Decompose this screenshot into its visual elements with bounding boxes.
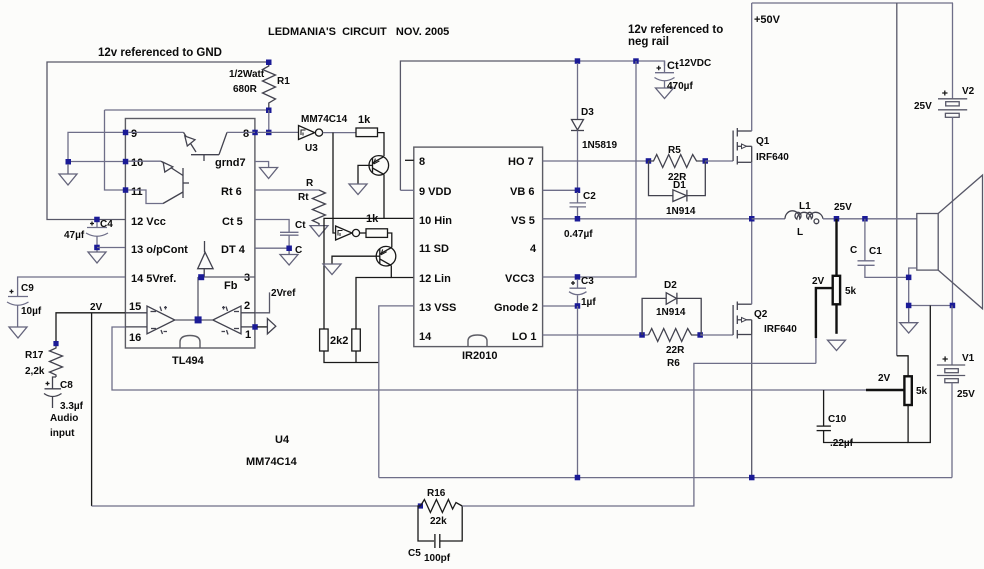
- wire Lin to 2k2 right riser: [356, 278, 391, 330]
- svg-text:16: 16: [129, 332, 141, 344]
- svg-text:13 o/pCont: 13 o/pCont: [131, 244, 188, 256]
- capacitor C5 loop: [418, 506, 462, 548]
- svg-text:0.47µf: 0.47µf: [564, 229, 593, 240]
- svg-text:MM74C14: MM74C14: [246, 456, 298, 468]
- svg-text:1N5819: 1N5819: [582, 140, 617, 151]
- node comparator mid junction: [195, 316, 202, 323]
- svg-text:11 SD: 11 SD: [419, 243, 449, 255]
- wire 2k2 bottoms join: [324, 351, 379, 363]
- svg-text:2V: 2V: [812, 276, 825, 287]
- wire R5 to Q1 gate: [705, 160, 733, 162]
- svg-text:V1: V1: [962, 353, 975, 364]
- svg-text:12 Lin: 12 Lin: [419, 273, 451, 285]
- resistor Rt: [312, 190, 325, 226]
- wire 12v rail to Ct cap: [578, 61, 665, 66]
- svg-text:IRF640: IRF640: [764, 324, 797, 335]
- buffer triangle above Fb: [198, 241, 213, 277]
- svg-text:10: 10: [131, 157, 143, 169]
- wire pin14 to C9: [18, 277, 125, 296]
- svg-text:11: 11: [131, 186, 143, 198]
- wire drop to inverter 2 input: [333, 133, 336, 233]
- svg-text:D2: D2: [664, 280, 677, 291]
- svg-text:neg rail: neg rail: [628, 36, 669, 48]
- potentiometer 5k (lower): [904, 376, 911, 405]
- diode D2 loop: [642, 298, 666, 335]
- node VS junction: [575, 216, 581, 222]
- svg-text:680R: 680R: [233, 84, 258, 95]
- svg-text:2,2k: 2,2k: [25, 366, 45, 377]
- svg-text:LO 1: LO 1: [512, 331, 536, 343]
- svg-text:R17: R17: [25, 350, 44, 361]
- svg-text:1/2Watt: 1/2Watt: [229, 69, 265, 80]
- svg-text:2V: 2V: [90, 302, 103, 313]
- svg-text:2k2: 2k2: [330, 335, 348, 347]
- svg-text:R1: R1: [277, 76, 290, 87]
- ground below C9: [9, 327, 27, 338]
- arrow output pin1: [267, 319, 275, 334]
- svg-text:TL494: TL494: [172, 355, 205, 367]
- svg-text:1k: 1k: [366, 213, 379, 225]
- svg-text:2Vref: 2Vref: [271, 288, 296, 299]
- capacitor C10: [817, 390, 909, 443]
- ground below C4: [88, 250, 106, 263]
- svg-text:2V: 2V: [878, 373, 891, 384]
- node pin1 junction: [252, 324, 257, 330]
- svg-text:22k: 22k: [430, 516, 447, 527]
- node mid rail junctions: [906, 303, 912, 309]
- svg-text:Rt 6: Rt 6: [221, 186, 242, 198]
- svg-text:8: 8: [419, 156, 425, 168]
- ground below mid rail: [900, 308, 918, 333]
- svg-text:.22µf: .22µf: [830, 438, 854, 449]
- diode D1 loop: [649, 161, 673, 196]
- node speaker return junction: [906, 275, 912, 281]
- node C junction: [286, 246, 292, 252]
- svg-text:U3: U3: [305, 143, 318, 154]
- ground Q3 base: [349, 184, 367, 195]
- diode D3: [577, 63, 579, 120]
- wire V1 bottom lead to neg rail: [951, 383, 953, 478]
- capacitor Ct 470uf: [655, 61, 675, 88]
- svg-text:C5: C5: [408, 548, 421, 559]
- ground below C: [280, 251, 298, 265]
- svg-text:DT 4: DT 4: [221, 244, 246, 256]
- transistor TL494 internal lower: [128, 160, 161, 162]
- svg-text:12VDC: 12VDC: [679, 58, 711, 69]
- wire pin13 left: [97, 247, 125, 249]
- ground below Ct: [656, 88, 674, 99]
- wire between comparator apexes: [175, 319, 213, 321]
- svg-text:C9: C9: [21, 283, 34, 294]
- svg-text:Ct: Ct: [295, 220, 306, 231]
- svg-text:VCC3: VCC3: [505, 273, 534, 285]
- speaker driver rectangle: [917, 214, 938, 271]
- svg-text:3: 3: [244, 272, 250, 284]
- wire V2 top lead: [952, 3, 954, 98]
- node R16 left junction: [418, 503, 423, 508]
- capacitor C8: [44, 377, 62, 408]
- svg-text:1: 1: [245, 329, 251, 341]
- wire V1 top lead: [951, 306, 953, 365]
- svg-text:C4: C4: [100, 219, 113, 230]
- node pin9-10 left junction: [66, 159, 72, 165]
- wire pin8 to U3 input: [257, 131, 299, 133]
- wire output to L1: [752, 218, 785, 220]
- svg-text:14 5Vref.: 14 5Vref.: [131, 273, 176, 285]
- svg-text:8: 8: [243, 128, 249, 140]
- svg-text:2: 2: [244, 300, 250, 312]
- svg-text:LEDMANIA'S CIRCUIT NOV. 200: LEDMANIA'S CIRCUIT NOV. 2005: [268, 26, 449, 38]
- capacitor C1: [858, 219, 909, 278]
- wire 2V rail (pin16 net): [112, 327, 866, 390]
- node R5 left junction: [646, 158, 652, 164]
- svg-text:MM74C14: MM74C14: [301, 114, 348, 125]
- capacitor C2: [570, 192, 587, 219]
- svg-text:14: 14: [419, 331, 432, 343]
- svg-text:12 Vcc: 12 Vcc: [131, 216, 166, 228]
- node R5 right junction: [703, 158, 709, 164]
- wire vertical to pin 11: [105, 110, 126, 190]
- wiper pot1: [816, 288, 833, 338]
- svg-text:25V: 25V: [914, 101, 932, 112]
- svg-text:Ct 5: Ct 5: [222, 216, 243, 228]
- node R6 right junction: [697, 332, 703, 338]
- wire R1 bottom horizontal y=110: [105, 109, 269, 111]
- node Fb junction: [198, 274, 204, 280]
- wire Q2 drain up to output node: [751, 219, 753, 304]
- inductor L1: [785, 211, 823, 224]
- svg-text:9: 9: [131, 128, 137, 140]
- wire Hin branch to 2k2 left: [324, 218, 384, 329]
- wire 1k to Q3 collector: [378, 133, 385, 156]
- svg-text:1N914: 1N914: [656, 307, 686, 318]
- svg-text:IR2010: IR2010: [462, 350, 497, 362]
- wire Q3 base to ground: [358, 165, 369, 184]
- svg-text:13 VSS: 13 VSS: [419, 302, 456, 314]
- speaker cone: [938, 175, 982, 309]
- node Gnode junction: [575, 303, 581, 309]
- wire pin8 stub: [405, 159, 414, 161]
- inverter U3b: [336, 226, 360, 240]
- svg-text:100pf: 100pf: [424, 553, 451, 564]
- transistor Q1 IRF640: [733, 128, 752, 165]
- svg-text:C10: C10: [828, 414, 847, 425]
- wire Gnode2 to C3 bottom: [543, 305, 578, 307]
- wire VB6 to C2: [543, 189, 578, 191]
- wire LO1 to R6: [543, 334, 649, 336]
- svg-text:+50V: +50V: [754, 14, 781, 26]
- svg-text:D1: D1: [673, 180, 686, 191]
- wiper pot2: [866, 389, 904, 391]
- resistor 2k2 right: [352, 329, 361, 351]
- wire Fb junction down to comparator mid: [197, 277, 199, 320]
- wire pin1 to arrow: [257, 326, 267, 328]
- resistor R17: [50, 346, 63, 377]
- svg-text:D3: D3: [581, 107, 594, 118]
- node junction squares at TL494 left pins: [123, 130, 129, 136]
- svg-text:22R: 22R: [666, 345, 685, 356]
- svg-text:input: input: [50, 428, 75, 439]
- wire 12v top rail: [47, 62, 269, 220]
- node junction square at TL494 pin 8: [252, 130, 257, 136]
- potentiometer 5k (upper): [835, 219, 837, 276]
- svg-text:U4: U4: [275, 434, 290, 446]
- wire R1 bottom to pin8 row: [268, 110, 270, 132]
- transistor Q3 (to Hin): [369, 156, 389, 176]
- ground Q4 base: [323, 264, 341, 275]
- svg-text:R16: R16: [427, 488, 446, 499]
- svg-text:Gnode 2: Gnode 2: [494, 302, 538, 314]
- svg-text:Ct: Ct: [667, 60, 679, 72]
- svg-text:VB 6: VB 6: [510, 186, 534, 198]
- svg-text:1k: 1k: [358, 114, 371, 126]
- node output junction Q1/Q2: [749, 216, 755, 222]
- wire Rt6: [255, 189, 319, 191]
- ground below Rt: [310, 226, 328, 237]
- svg-text:3.3µf: 3.3µf: [60, 401, 84, 412]
- capacitor Ct: [280, 232, 299, 248]
- svg-text:47µf: 47µf: [64, 230, 85, 241]
- transistor Q2 IRF640: [733, 302, 752, 339]
- node rail junction at D3: [575, 58, 581, 64]
- wire L1 to speaker: [823, 218, 917, 220]
- ground below pot1: [828, 340, 846, 350]
- svg-text:Rt: Rt: [298, 192, 309, 203]
- ground grnd7: [260, 168, 278, 179]
- svg-text:1N914: 1N914: [666, 206, 696, 217]
- node C1 top junction: [862, 216, 868, 222]
- svg-text:10µf: 10µf: [21, 306, 42, 317]
- wire riser to pot1 wiper: [815, 338, 817, 363]
- wire Q1 source to output node: [751, 162, 753, 219]
- svg-text:IRF640: IRF640: [756, 152, 789, 163]
- wire pin8 internal: [227, 131, 255, 133]
- resistor R16: [420, 500, 462, 513]
- svg-text:C8: C8: [60, 380, 73, 391]
- node VB junction: [575, 188, 581, 194]
- svg-text:9 VDD: 9 VDD: [419, 186, 451, 198]
- svg-text:5k: 5k: [845, 286, 857, 297]
- resistor 2k2 left: [320, 329, 329, 351]
- svg-text:12v referenced to GND: 12v referenced to GND: [98, 47, 222, 59]
- wire +50V to pot2 riser: [896, 3, 898, 356]
- svg-text:10 Hin: 10 Hin: [419, 215, 452, 227]
- node neg rail junction at Q2 source: [749, 475, 755, 481]
- svg-text:12v referenced to: 12v referenced to: [628, 24, 723, 36]
- svg-text:HO 7: HO 7: [508, 156, 534, 168]
- svg-text:L: L: [797, 227, 803, 238]
- svg-text:R6: R6: [667, 358, 680, 369]
- svg-text:1µf: 1µf: [581, 297, 596, 308]
- wire Q3 emitter to Hin: [384, 175, 414, 219]
- IC U1 IR2010 box: [414, 147, 543, 347]
- svg-text:Q2: Q2: [754, 309, 768, 320]
- node rail junction at VCC riser: [633, 58, 639, 64]
- wire Q4 base to ground: [332, 256, 376, 264]
- wire pin2 2Vref: [255, 292, 270, 312]
- svg-text:Audio: Audio: [50, 413, 78, 424]
- svg-text:grnd7: grnd7: [215, 157, 246, 169]
- svg-text:Q1: Q1: [756, 136, 770, 147]
- wire pot2 top to +50 riser: [897, 356, 908, 377]
- capacitor C9: [7, 297, 29, 328]
- svg-text:C3: C3: [581, 276, 594, 287]
- wire mid rail: [909, 305, 953, 307]
- svg-text:25V: 25V: [834, 202, 852, 213]
- transistor TL494 internal top: [128, 131, 184, 133]
- wire HO7 to R5: [543, 160, 649, 162]
- wire pin15 2V line: [56, 313, 125, 343]
- svg-text:R5: R5: [668, 145, 681, 156]
- wire V2 bottom lead to mid rail: [952, 117, 954, 305]
- svg-text:25V: 25V: [957, 389, 975, 400]
- wire 2V drop to bottom rail: [91, 313, 93, 506]
- wire VSS left and down: [379, 306, 414, 478]
- wire 1k2 to Q4 collector: [388, 233, 392, 248]
- wire +50V rail: [752, 2, 953, 4]
- notch arc TL494: [180, 336, 200, 349]
- wire Q4 emitter to Lin: [391, 266, 414, 278]
- svg-text:C: C: [850, 245, 857, 256]
- wire Fb row to pin3: [198, 276, 255, 278]
- notch arc IR2010: [468, 335, 487, 347]
- svg-text:L1: L1: [799, 201, 811, 212]
- svg-text:V2: V2: [962, 86, 975, 97]
- wire pin10 left: [68, 161, 125, 163]
- wire C3 bottom down to neg rail: [577, 306, 579, 478]
- capacitor C4: [86, 220, 108, 248]
- wire U3 output to 1k: [323, 132, 356, 134]
- svg-text:C1: C1: [869, 246, 882, 257]
- wire bottom 2V rail right: [462, 363, 816, 506]
- wire Q2 source down to neg rail: [751, 335, 753, 478]
- svg-text:4: 4: [530, 243, 537, 255]
- wire pot2 bottom loop: [908, 306, 930, 443]
- svg-text:Fb: Fb: [224, 280, 238, 292]
- svg-text:C2: C2: [583, 191, 596, 202]
- transistor Q4 (to Lin): [376, 246, 396, 266]
- ground below pin10 junction: [59, 164, 77, 185]
- wire U3b output to 1k2: [360, 232, 366, 234]
- wire neg rail (VSS to V1-): [379, 477, 952, 479]
- resistor 1k (top, box style): [356, 128, 378, 137]
- comparator right triangle (pins 2,1): [213, 306, 255, 335]
- node neg rail junction at C3 column: [575, 475, 581, 481]
- svg-text:R: R: [306, 178, 314, 189]
- inverter U3: [299, 126, 323, 140]
- wire VS5 to output node: [543, 218, 752, 220]
- IC U2 TL494 box: [125, 119, 255, 349]
- wire pin9 left: [68, 132, 125, 161]
- wire Ct5: [255, 220, 289, 233]
- svg-text:15: 15: [129, 301, 141, 313]
- wire VCC3 riser: [543, 61, 636, 277]
- svg-text:470µf: 470µf: [667, 81, 693, 92]
- resistor R6: [649, 329, 701, 342]
- comparator left triangle (pins 15,16): [125, 306, 175, 334]
- wire VDD rail from top: [400, 189, 413, 191]
- node pot1 top junction: [834, 216, 840, 222]
- wire speaker return: [909, 268, 917, 306]
- wire DT4: [255, 247, 289, 249]
- wire grnd7 stub: [255, 162, 269, 168]
- battery V2: [938, 99, 967, 118]
- node R17 top: [53, 341, 58, 346]
- wire R6 to Q2 gate: [700, 334, 733, 336]
- battery V1: [937, 365, 965, 383]
- wire Q1 drain to +50V rail: [751, 3, 753, 131]
- resistor R5: [649, 155, 706, 168]
- svg-text:5k: 5k: [916, 386, 928, 397]
- node R6 left junction: [639, 332, 645, 338]
- wire bottom 2V rail: [92, 505, 421, 507]
- node VCC3 junction: [575, 274, 581, 280]
- resistor 1k (lower, box style): [366, 229, 388, 238]
- resistor R1: [263, 63, 276, 109]
- capacitor C3: [569, 279, 587, 306]
- svg-text:VS 5: VS 5: [511, 215, 535, 227]
